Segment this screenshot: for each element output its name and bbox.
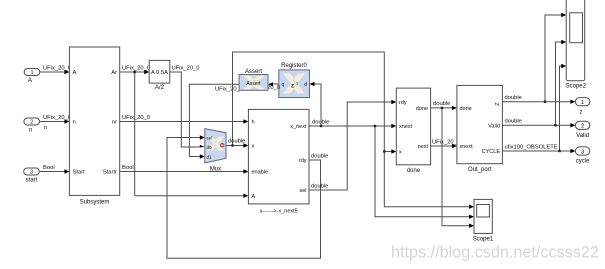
- wire: nr net to big block h: [120, 121, 246, 123]
- outport 1 z: [575, 98, 589, 106]
- svg-text:Startr: Startr: [103, 170, 117, 176]
- outport 2 Valid: [575, 121, 589, 129]
- wire: done next to Out_port xnext: [431, 145, 454, 147]
- svg-text:d0: d0: [207, 145, 213, 150]
- Mux block: [205, 129, 226, 163]
- svg-text:double: double: [505, 119, 522, 125]
- wire: Valid net to outport2 and Scope2 in2: [502, 42, 572, 125]
- svg-text:Assert: Assert: [246, 81, 261, 87]
- svg-text:sel: sel: [299, 188, 306, 194]
- svg-text:Start: Start: [73, 170, 86, 176]
- inport 1: [24, 69, 40, 76]
- svg-text:Subsystem: Subsystem: [80, 200, 110, 206]
- svg-text:CYCLE: CYCLE: [482, 149, 501, 155]
- svg-text:UFix_20_0: UFix_20_0: [432, 140, 460, 146]
- A/2 gain block: [149, 60, 170, 83]
- svg-text:UFix_20_0: UFix_20_0: [43, 66, 71, 72]
- svg-text:UFix_20_0: UFix_20_0: [122, 66, 150, 72]
- svg-text:done: done: [407, 168, 421, 174]
- svg-text:A: A: [28, 78, 32, 84]
- svg-text:nr: nr: [112, 120, 117, 126]
- wire: big block rdy out, feedback to Mux sel: [167, 138, 321, 259]
- wire: done out to Out_port done + down to Scope1 in3: [431, 108, 471, 226]
- svg-text:double: double: [311, 154, 328, 160]
- wire: Z net to outport1 and Scope2 in1: [502, 15, 572, 102]
- svg-text:sel: sel: [207, 136, 213, 141]
- Scope1 block: [474, 199, 492, 233]
- svg-text:rdy: rdy: [399, 100, 407, 106]
- Register0 block: [279, 70, 310, 98]
- wire: x_next net (to done.xnext, up to Register0 d, down to Scope1 in2): [309, 84, 471, 217]
- wire: inport3 start to Subsystem: [40, 171, 66, 173]
- svg-text:n: n: [29, 128, 32, 134]
- svg-text:q: q: [282, 82, 285, 88]
- wire: inport1 A to Subsystem: [40, 71, 66, 73]
- wire: mux output x net (to big x, up over to done.x, down to Scope1 in1): [226, 52, 471, 207]
- svg-text:xnext: xnext: [399, 124, 413, 130]
- svg-text:h: h: [252, 120, 255, 126]
- svg-text:https://blog.csdn.net/ccsss22: https://blog.csdn.net/ccsss22: [391, 244, 599, 262]
- svg-text:xnext: xnext: [460, 144, 474, 150]
- svg-text:Bool: Bool: [122, 165, 134, 171]
- svg-text:x_next: x_next: [290, 124, 307, 130]
- svg-text:n: n: [73, 120, 76, 126]
- svg-text:rdy: rdy: [299, 158, 307, 164]
- svg-text:Mux: Mux: [210, 167, 221, 173]
- wire: inport2 n to Subsystem: [40, 121, 66, 123]
- svg-text:2: 2: [581, 124, 584, 130]
- wire: A/2 output to Mux d0: [170, 72, 202, 147]
- svg-text:double: double: [228, 139, 245, 145]
- svg-text:double: double: [505, 95, 522, 101]
- svg-text:double: double: [312, 120, 329, 126]
- svg-text:enable: enable: [252, 170, 269, 176]
- svg-text:Ar: Ar: [111, 70, 117, 76]
- Out_port block: [457, 85, 503, 163]
- svg-text:Scope1: Scope1: [473, 237, 494, 243]
- svg-text:1: 1: [581, 100, 584, 106]
- wire: Register0 q to Assert: [272, 83, 279, 85]
- done block: [396, 88, 430, 165]
- svg-text:n: n: [44, 125, 47, 131]
- wire: Ar net (to A/2 and down to big block A): [120, 72, 246, 196]
- svg-text:A: A: [73, 70, 77, 76]
- wire: Startr Bool net to big block enable: [120, 171, 246, 173]
- wire: Assert output to Mux d1: [189, 84, 239, 156]
- svg-text:UFix_20_0: UFix_20_0: [122, 115, 150, 121]
- svg-text:d: d: [304, 82, 307, 88]
- svg-text:Out_port: Out_port: [468, 167, 492, 173]
- svg-text:1: 1: [30, 70, 33, 76]
- svg-text:A: A: [151, 70, 155, 76]
- svg-text:Scope2: Scope2: [566, 84, 587, 90]
- svg-text:z: z: [580, 110, 583, 116]
- Scope2 block (top cropped): [566, 0, 585, 81]
- svg-text:Valid: Valid: [576, 133, 589, 139]
- svg-text:A: A: [252, 194, 256, 200]
- svg-text:ufix100_OBSOLETE: ufix100_OBSOLETE: [505, 145, 558, 151]
- svg-text:A/2: A/2: [155, 85, 165, 91]
- Assert block: [239, 75, 268, 91]
- big MCode block x->x_next: [248, 109, 309, 203]
- svg-text:UFix_20_0: UFix_20_0: [43, 115, 71, 121]
- svg-text:3: 3: [581, 149, 584, 155]
- svg-text:start: start: [26, 177, 38, 183]
- svg-text:3: 3: [30, 170, 33, 176]
- wire: big block sel out to done rdy: [309, 102, 393, 190]
- svg-text:Assert: Assert: [245, 69, 262, 75]
- svg-text:x: x: [252, 144, 255, 150]
- svg-text:2: 2: [30, 120, 33, 126]
- inport 3: [24, 168, 40, 175]
- svg-text:0.5A: 0.5A: [156, 70, 168, 76]
- svg-text:x------>-x_next5: x------>-x_next5: [260, 209, 298, 215]
- Subsystem block: [69, 47, 119, 195]
- svg-text:double: double: [311, 184, 328, 190]
- svg-text:next: next: [418, 144, 429, 150]
- svg-text:Valid: Valid: [488, 124, 500, 130]
- svg-text:cycle: cycle: [576, 159, 590, 165]
- svg-text:done: done: [416, 106, 428, 112]
- svg-text:UFix_20_0: UFix_20_0: [172, 66, 200, 72]
- svg-text:Bool: Bool: [43, 165, 55, 171]
- svg-text:done: done: [460, 106, 472, 112]
- outport 3 cycle: [575, 147, 589, 155]
- svg-text:Register0: Register0: [281, 63, 307, 69]
- svg-text:x: x: [399, 150, 402, 156]
- inport 2: [24, 118, 40, 125]
- svg-text:d1: d1: [207, 155, 213, 160]
- svg-text:double: double: [433, 101, 450, 107]
- wire: CYCLE net to outport3 and Scope2 in3: [502, 66, 572, 151]
